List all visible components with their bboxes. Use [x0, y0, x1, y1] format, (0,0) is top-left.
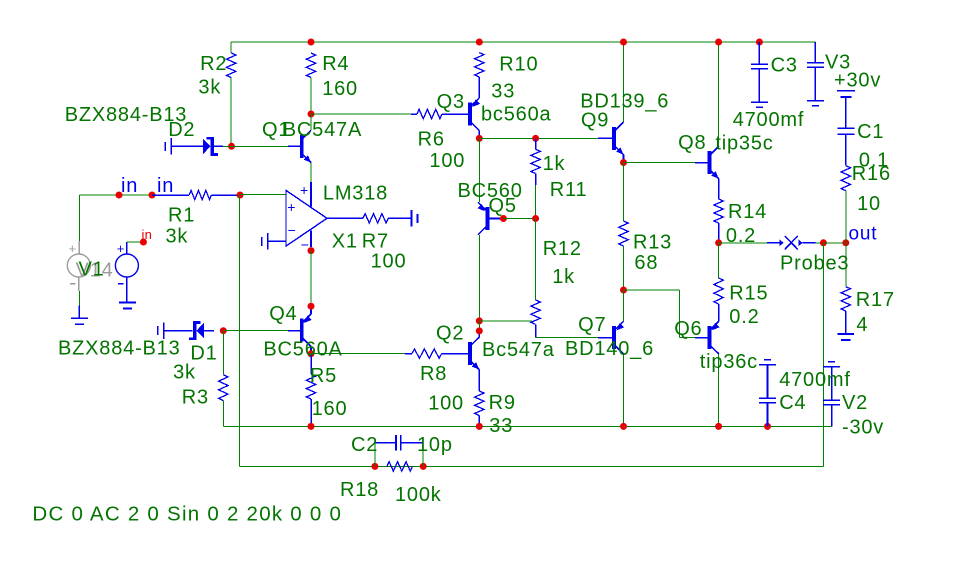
ground V1 — [119, 303, 136, 309]
svg-text:Q8: Q8 — [678, 132, 706, 154]
wire Q4 emitter — [310, 310, 312, 314]
node in dot1 — [116, 192, 123, 199]
node C4 bottom — [764, 423, 771, 430]
svg-text:BC547A: BC547A — [283, 119, 362, 141]
diode D2 — [165, 137, 223, 156]
node C2 right — [420, 463, 427, 470]
svg-text:Q5: Q5 — [489, 195, 517, 217]
node Q5 base — [500, 215, 507, 222]
node R1 right — [237, 192, 244, 199]
wire V1 to ground — [78, 291, 80, 306]
svg-text:1k: 1k — [552, 266, 575, 288]
node out left — [715, 239, 722, 246]
wire Q7 emitter up — [623, 290, 625, 321]
svg-text:R17: R17 — [856, 289, 895, 311]
svg-text:33: 33 — [489, 415, 513, 437]
resistor R4 — [306, 53, 315, 78]
node R11 top — [532, 135, 539, 142]
svg-text:+: + — [287, 199, 295, 215]
pin stub R7 right — [412, 210, 418, 227]
svg-text:C4: C4 — [779, 392, 806, 414]
resistor R5 — [306, 354, 315, 427]
svg-text:bc560a: bc560a — [481, 104, 551, 126]
node Q8c rail — [715, 39, 722, 46]
transistor Q2 — [468, 337, 479, 370]
svg-text:R10: R10 — [499, 54, 538, 76]
resistor R10 — [475, 53, 484, 77]
svg-text:+30v: +30v — [834, 70, 881, 92]
svg-text:DC 0 AC 2 0 Sin 0 2 20k 0 0 0: DC 0 AC 2 0 Sin 0 2 20k 0 0 0 — [32, 502, 342, 525]
resistor R9 — [475, 391, 484, 426]
svg-text:100: 100 — [428, 393, 464, 415]
node R4 bottom — [308, 111, 315, 118]
svg-text:68: 68 — [634, 252, 658, 274]
wire V1 top to in node — [127, 241, 143, 243]
wire Q9 collector to rail — [623, 42, 625, 122]
svg-text:R11: R11 — [550, 179, 588, 201]
wire rail to V3 — [814, 42, 816, 63]
svg-text:Q3: Q3 — [437, 91, 465, 113]
resistor R15 — [714, 243, 723, 321]
svg-text:Q6: Q6 — [674, 318, 702, 340]
node D2 cathode — [228, 143, 235, 150]
wire Q4 collector — [310, 347, 312, 354]
svg-text:R12: R12 — [543, 238, 582, 260]
svg-text:1k: 1k — [543, 153, 566, 175]
svg-text:3k: 3k — [173, 362, 196, 384]
svg-text:V1: V1 — [79, 259, 105, 281]
svg-text:4700mf: 4700mf — [779, 369, 851, 391]
svg-text:+: + — [117, 241, 125, 256]
wire in source riser — [78, 195, 80, 241]
svg-text:0.2: 0.2 — [729, 306, 759, 328]
svg-text:R5: R5 — [310, 365, 337, 387]
wire Q5 base — [489, 218, 503, 220]
node R9 bottom — [476, 423, 483, 430]
svg-text:LM318: LM318 — [323, 183, 388, 205]
transistor Q5 — [477, 202, 489, 235]
wire R4 to node — [310, 78, 312, 115]
node C3 top — [756, 39, 763, 46]
svg-text:R9: R9 — [489, 392, 516, 414]
svg-text:Probe3: Probe3 — [780, 253, 849, 275]
svg-text:R16: R16 — [852, 163, 891, 185]
source V3 — [807, 42, 824, 106]
wire R3 to rail — [222, 401, 224, 427]
transistor Q8 — [708, 146, 719, 179]
wire R1 to opamp + — [240, 194, 286, 196]
svg-text:out: out — [849, 224, 878, 245]
node Q6c rail — [715, 423, 722, 430]
voltage source V1 (blue) — [115, 241, 138, 303]
svg-text:Q9: Q9 — [581, 110, 609, 132]
transistor Q6 — [708, 321, 720, 354]
wire out net — [719, 242, 824, 244]
svg-text:V2: V2 — [842, 392, 868, 414]
node Q7c rail — [620, 423, 627, 430]
node R12 top — [532, 215, 539, 222]
svg-text:R14: R14 — [728, 201, 767, 223]
node R5 bottom — [308, 423, 315, 430]
wire R13node to Q6 — [624, 290, 709, 338]
wire Q5c link — [478, 321, 480, 331]
resistor R17 — [841, 243, 850, 334]
wire opamp V- pin — [310, 231, 312, 247]
source V2 — [823, 362, 840, 427]
svg-text:4: 4 — [856, 314, 868, 336]
node opamp V- — [308, 247, 315, 254]
svg-text:BC560A: BC560A — [263, 338, 342, 360]
transistor Q4 — [300, 314, 312, 347]
capacitor C3 — [751, 42, 768, 107]
svg-text:-30v: -30v — [842, 417, 884, 439]
node Q5c — [476, 317, 483, 324]
wire Q1 collector — [310, 114, 312, 130]
wire Q6 collector down — [718, 354, 720, 427]
wire Q3 collector — [478, 131, 480, 139]
svg-text:Q4: Q4 — [269, 303, 297, 325]
diode D1 — [158, 321, 214, 340]
wire Q5c to R12 bottom — [479, 320, 532, 322]
svg-text:tip36c: tip36c — [700, 351, 758, 373]
svg-text:160: 160 — [312, 398, 348, 420]
node Q3 collector — [476, 135, 483, 142]
svg-text:4700mf: 4700mf — [733, 109, 805, 131]
node Q4 collector — [308, 350, 315, 357]
wire top +30v rail — [231, 41, 815, 43]
node C2 left — [371, 463, 378, 470]
node R10 top — [476, 39, 483, 46]
svg-text:−: − — [288, 222, 296, 238]
wire Q2 collector — [478, 331, 480, 337]
wire R10 to Q3 emitter — [478, 77, 480, 98]
wire Q4c to R8 — [311, 353, 405, 355]
wire R4 node to R6 — [311, 113, 411, 115]
capacitor C2 — [375, 435, 423, 467]
resistor R18 — [387, 462, 412, 471]
ground V14 — [71, 306, 88, 325]
resistor R8 — [405, 349, 469, 358]
resistor R13 — [619, 163, 628, 291]
svg-text:100: 100 — [371, 251, 407, 273]
node Q4 emitter — [308, 303, 315, 310]
node D1 anode — [220, 327, 227, 334]
resistor R1 — [152, 190, 240, 199]
node out — [842, 239, 849, 246]
wire D2 to Q1 base — [223, 145, 301, 147]
wire D1 to Q4 base — [223, 330, 300, 332]
svg-text:R6: R6 — [418, 129, 445, 151]
wire Q9 emitter — [623, 155, 625, 163]
wire R12 to Q7 base — [536, 337, 613, 339]
svg-text:in: in — [142, 227, 153, 242]
transistor Q3 — [468, 98, 480, 131]
node in dot2 — [149, 192, 156, 199]
op-amp U1 LM318 — [286, 190, 327, 246]
wire R2 to D2 node — [230, 78, 232, 147]
svg-text:in: in — [157, 175, 174, 197]
wire -30v rail — [223, 425, 831, 427]
wire Q5 base to R11/R12 — [503, 218, 535, 220]
wire R11 to Q5 base node — [535, 185, 537, 219]
node in red — [140, 239, 147, 246]
probe Probe3 — [779, 236, 802, 249]
svg-text:C1: C1 — [857, 121, 884, 143]
wire R3 top lead — [222, 331, 224, 375]
svg-text:BD140_6: BD140_6 — [565, 338, 654, 360]
node Q2c — [476, 327, 483, 334]
wire Q8 collector to rail — [718, 42, 720, 146]
svg-text:tip35c: tip35c — [715, 133, 773, 155]
wire rail to R2 — [230, 42, 232, 53]
svg-text:10p: 10p — [417, 434, 453, 456]
svg-text:0.2: 0.2 — [726, 225, 756, 247]
wire Q5 collector down — [478, 235, 480, 321]
wire Q3c to Q9 base — [479, 137, 613, 139]
svg-text:R18: R18 — [340, 479, 379, 501]
svg-text:100: 100 — [429, 150, 465, 172]
svg-text:R3: R3 — [182, 387, 209, 409]
capacitor C1 — [837, 128, 854, 166]
wire opamp V+ pin — [310, 182, 312, 207]
resistor R6 — [411, 109, 469, 118]
svg-text:Bc547a: Bc547a — [482, 339, 555, 361]
voltage source V14 (grey) — [67, 241, 90, 291]
transistor Q7 — [612, 321, 624, 354]
svg-text:X1: X1 — [332, 231, 358, 253]
wire feedback bottom rail — [239, 465, 823, 467]
wire opamp V- to Q4 emitter — [310, 251, 312, 303]
svg-text:+: + — [300, 182, 308, 198]
svg-text:Q7: Q7 — [578, 314, 606, 336]
resistor R2 — [227, 53, 236, 78]
svg-text:R15: R15 — [729, 283, 768, 305]
svg-text:R4: R4 — [322, 53, 349, 75]
svg-text:R2: R2 — [200, 53, 227, 75]
resistor R7 — [327, 214, 412, 223]
resistor R16 — [841, 166, 850, 243]
wire Q2 emitter to R9 — [478, 370, 480, 391]
wire Q1 emitter to opamp V+ — [310, 163, 312, 207]
wire feedback vertical — [822, 243, 824, 467]
svg-text:100k: 100k — [395, 484, 442, 506]
ground R17 — [837, 334, 854, 340]
svg-text:3k: 3k — [166, 226, 189, 248]
resistor R14 — [714, 199, 723, 243]
svg-text:R1: R1 — [168, 205, 195, 227]
svg-text:in: in — [121, 175, 138, 197]
node out mid — [820, 239, 827, 246]
resistor R12 — [531, 219, 540, 338]
op-amp supply marks — [300, 182, 309, 252]
node Q9c rail — [620, 39, 627, 46]
svg-text:3k: 3k — [198, 76, 221, 98]
svg-text:10: 10 — [857, 193, 881, 215]
wire out to R16 col — [823, 242, 845, 244]
node R13 bottom — [620, 287, 627, 294]
svg-text:R8: R8 — [420, 363, 447, 385]
op-amp input marks — [287, 199, 295, 238]
node R4 top — [308, 39, 315, 46]
svg-text:33: 33 — [491, 81, 515, 103]
svg-text:160: 160 — [322, 78, 358, 100]
svg-text:R7: R7 — [362, 231, 389, 253]
resistor R3 — [219, 375, 228, 401]
svg-text:C3: C3 — [771, 54, 798, 76]
svg-text:C2: C2 — [351, 434, 378, 456]
svg-text:D2: D2 — [168, 119, 195, 141]
svg-text:Q2: Q2 — [436, 323, 464, 345]
transistor Q9 — [612, 122, 623, 155]
wire Q9e to Q8 base — [624, 162, 709, 164]
transistor Q1 — [300, 130, 311, 163]
svg-text:BZX884-B13: BZX884-B13 — [58, 338, 181, 360]
capacitor C4 — [759, 360, 776, 427]
wire Q5 emitter up — [478, 138, 480, 202]
svg-text:R13: R13 — [633, 232, 672, 254]
wire Q7 collector down — [623, 354, 625, 427]
node Q9 emitter — [620, 159, 627, 166]
wire Q8 emitter to R14 — [718, 179, 720, 199]
source +30v battery — [837, 91, 855, 129]
wire in net — [79, 194, 152, 196]
wire feedback left vertical — [238, 195, 240, 466]
resistor R11 — [531, 138, 540, 185]
op-amp inverting input stub — [262, 233, 286, 250]
svg-text:+: + — [69, 241, 77, 256]
